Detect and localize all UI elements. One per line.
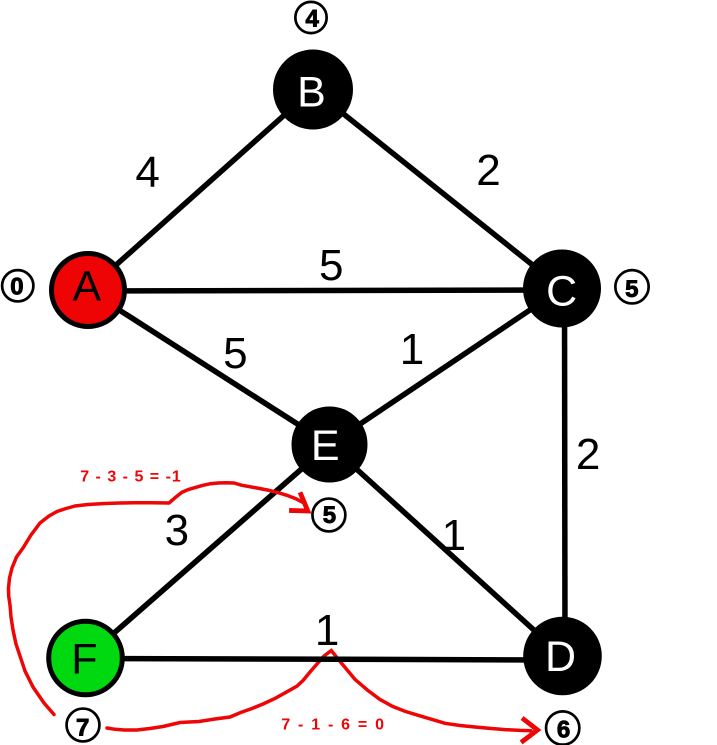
svg-text:F: F <box>71 636 97 684</box>
svg-text:2: 2 <box>576 430 600 479</box>
svg-text:5: 5 <box>323 502 336 529</box>
svg-text:1: 1 <box>315 606 339 655</box>
svg-text:1: 1 <box>400 325 424 374</box>
svg-text:5: 5 <box>319 241 343 290</box>
svg-text:B: B <box>297 69 326 117</box>
svg-text:A: A <box>73 263 102 311</box>
svg-text:7 - 3 - 5 = -1: 7 - 3 - 5 = -1 <box>80 469 182 486</box>
svg-text:1: 1 <box>442 511 466 560</box>
svg-text:E: E <box>311 422 340 470</box>
svg-text:2: 2 <box>476 146 500 195</box>
svg-text:4: 4 <box>135 148 159 197</box>
svg-text:5: 5 <box>223 329 247 378</box>
svg-text:D: D <box>545 633 576 681</box>
svg-text:6: 6 <box>557 717 570 744</box>
svg-text:4: 4 <box>306 6 320 33</box>
svg-text:0: 0 <box>10 274 23 301</box>
svg-text:7: 7 <box>76 714 89 741</box>
svg-text:3: 3 <box>165 506 189 555</box>
svg-text:5: 5 <box>625 276 638 303</box>
svg-text:C: C <box>546 267 577 315</box>
svg-text:7 - 1 - 6 = 0: 7 - 1 - 6 = 0 <box>281 717 385 734</box>
